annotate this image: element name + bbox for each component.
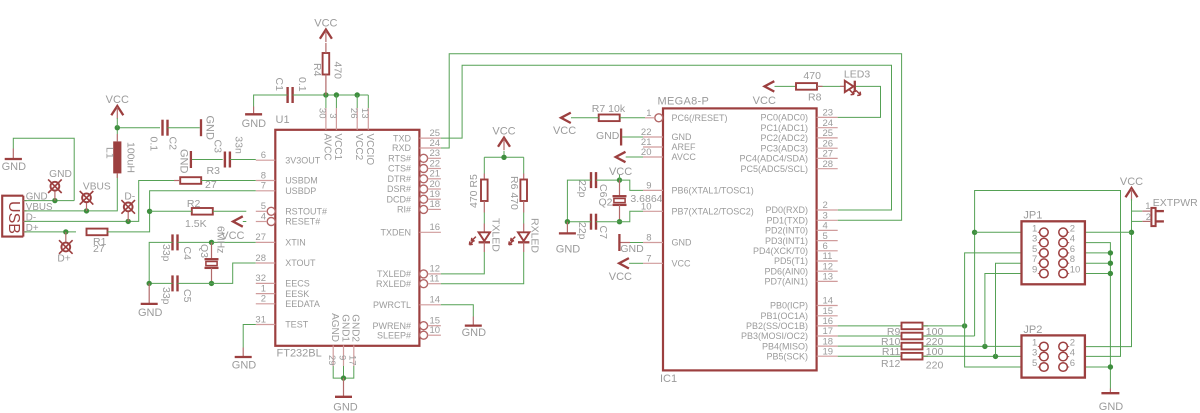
pin IC1 PC4(ADC4/SDA) (27) <box>739 149 837 164</box>
pin U1 TXDEN (16) <box>380 222 440 237</box>
pin IC1 PC3(ADC3) (26) <box>760 138 837 153</box>
svg-text:TXDEN: TXDEN <box>380 228 411 238</box>
pin USB D+ stub <box>23 231 26 233</box>
wire MOSI net JP2 pin 4 <box>975 191 1121 357</box>
pin IC1 PD1(TXD) (3) <box>766 211 837 226</box>
wire R12 to JP2 pin 3 <box>923 355 1038 357</box>
net arrow RESET <box>233 216 243 226</box>
wire R6 top lead <box>523 174 525 180</box>
ground bottom right <box>1099 389 1124 413</box>
pin IC1 PD5(T1) (11) <box>774 251 838 266</box>
pin IC1 VCC (7) <box>643 253 691 268</box>
pin U1 DTR# (21) <box>387 169 440 184</box>
svg-text:11: 11 <box>430 274 440 285</box>
svg-text:27: 27 <box>93 243 105 255</box>
pin JP1 5 <box>1032 244 1048 257</box>
pin JP1 4 <box>1059 234 1075 247</box>
wire VCC to JP1 pin 2 <box>1069 231 1131 233</box>
svg-text:EXTPWR: EXTPWR <box>1153 197 1198 209</box>
svg-text:EEDATA: EEDATA <box>285 299 320 309</box>
test point D+ <box>59 240 73 254</box>
svg-text:DCD#: DCD# <box>386 194 411 204</box>
wire XTAL2 to pin 10 <box>620 211 644 221</box>
svg-text:6: 6 <box>1070 358 1075 369</box>
svg-text:D-: D- <box>124 192 135 203</box>
wire U1 ground pins <box>333 366 354 378</box>
svg-text:28: 28 <box>823 159 834 170</box>
pin U1 VCC1 (3) <box>327 108 343 161</box>
svg-text:GND: GND <box>596 130 620 142</box>
wire LED3 left lead <box>840 85 845 87</box>
svg-text:PC5(ADC5/SCL): PC5(ADC5/SCL) <box>740 164 808 174</box>
wire TXD to PD0 <box>441 65 892 210</box>
wire to pin 13 <box>367 95 369 108</box>
svg-text:2: 2 <box>261 294 266 305</box>
svg-text:GND: GND <box>672 132 693 142</box>
svg-text:PB0(ICP): PB0(ICP) <box>770 301 808 311</box>
wire RXD to PD1 <box>441 54 902 221</box>
pin IC1 PB6(XTAL1/TOSC1) (9) <box>643 180 754 195</box>
net arrow VCC R7 <box>561 113 571 123</box>
wire GND net from USB GND pin <box>13 138 74 200</box>
wire C6 to XTAL1 node <box>596 179 620 181</box>
ground below C6 C7 <box>556 222 581 256</box>
test point GND <box>48 179 62 193</box>
svg-text:GND: GND <box>462 327 487 339</box>
svg-text:7: 7 <box>261 181 266 192</box>
pin IC1 PC1(ADC1) (24) <box>760 118 837 133</box>
LED LED3 <box>845 81 861 96</box>
op-amp IC1 MEGA8-P box <box>663 108 817 370</box>
svg-text:C3: C3 <box>212 140 224 154</box>
svg-text:16: 16 <box>430 222 441 233</box>
junction C5 GND <box>147 281 152 286</box>
svg-text:470: 470 <box>332 62 344 80</box>
pin JP1 7 <box>1032 254 1048 267</box>
LED TXLED <box>469 232 490 245</box>
svg-text:AVCC: AVCC <box>672 152 697 162</box>
wire VBUS to L1 <box>24 174 117 211</box>
wire R3 to pin 8 <box>201 180 256 182</box>
wire to R6 <box>523 157 525 173</box>
junction VCC <box>115 125 120 130</box>
pin IC1 PB2(SS/OC1B) (16) <box>746 316 838 331</box>
ground left of C3 <box>177 149 191 174</box>
junction D- testpoint <box>126 219 131 224</box>
pin IC1 PD0(RXD) (2) <box>765 200 837 215</box>
svg-text:TXLED: TXLED <box>490 218 502 252</box>
pin JP1 1 <box>1032 223 1048 236</box>
wire VCC arrow to R7 <box>571 117 599 119</box>
svg-text:22p: 22p <box>576 222 588 240</box>
svg-text:3V3OUT: 3V3OUT <box>285 155 321 165</box>
ground below TEST <box>232 348 257 372</box>
wire to R5 <box>483 157 485 173</box>
junction GND JP2 <box>1108 364 1113 369</box>
svg-text:JP2: JP2 <box>1023 324 1042 336</box>
capacitor C4 <box>173 234 178 250</box>
wire C4 C5 left to GND <box>149 242 172 283</box>
wire R6 lead <box>523 201 525 213</box>
svg-text:PD5(T1): PD5(T1) <box>774 256 808 266</box>
net arrow VCC R8 <box>765 81 775 91</box>
svg-text:SLEEP#: SLEEP# <box>377 330 411 340</box>
wire TXLED top lead <box>483 224 485 233</box>
svg-text:1: 1 <box>646 108 651 119</box>
wire GND to C3 <box>192 159 223 161</box>
junction MOSI JP1 <box>972 230 977 235</box>
wire to pin 30 <box>325 95 327 108</box>
svg-text:VCC: VCC <box>753 95 776 107</box>
svg-text:PWRCTL: PWRCTL <box>373 300 411 310</box>
svg-text:TEST: TEST <box>285 320 309 330</box>
wire C5 to XTOUT node <box>178 282 212 284</box>
crystal Q3 <box>205 259 219 268</box>
capacitor C2 <box>163 120 168 136</box>
svg-text:PC1(ADC1): PC1(ADC1) <box>760 123 808 133</box>
pin IC1 PB3(MOSI/OC2) (17) <box>741 326 838 341</box>
wire LED3 to PC0 <box>838 86 881 117</box>
junction VCC VCC2 <box>355 92 360 97</box>
pin JP1 9 <box>1032 265 1048 278</box>
pin U1 AVCC (30) <box>317 108 333 161</box>
wire pin to R10 <box>838 335 902 337</box>
wire EXTPWR pin 2 <box>1132 220 1143 222</box>
wire TEST to ground <box>243 325 256 348</box>
svg-text:VCCIO: VCCIO <box>364 134 375 166</box>
svg-text:R3: R3 <box>207 165 221 177</box>
svg-text:PC0(ADC0): PC0(ADC0) <box>760 113 808 123</box>
junction VBUS testpoint <box>84 208 89 213</box>
pin IC1 PC6(/RESET) (1) <box>645 108 728 123</box>
svg-text:5: 5 <box>1032 358 1037 369</box>
pin U1 3V3OUT (6) <box>256 150 321 165</box>
wire C4 to XTIN node <box>178 241 212 243</box>
svg-text:AGND: AGND <box>329 313 340 342</box>
svg-text:PC3(ADC3): PC3(ADC3) <box>760 143 808 153</box>
svg-text:GND: GND <box>672 238 693 248</box>
svg-text:9: 9 <box>646 180 651 191</box>
pin JP2 6 <box>1059 358 1075 371</box>
wire D+ to R1 <box>24 231 76 233</box>
ground at IC1 pin 8 <box>619 234 644 255</box>
svg-text:Q3: Q3 <box>198 244 210 258</box>
wire arrow to pin 7 <box>629 262 643 264</box>
wire RXLED lead down <box>523 242 525 252</box>
pin IC1 PB0(ICP) (14) <box>770 296 838 311</box>
svg-text:6MHz: 6MHz <box>215 226 227 253</box>
svg-text:AREF: AREF <box>672 142 697 152</box>
svg-text:27: 27 <box>255 232 266 243</box>
svg-text:PD0(RXD): PD0(RXD) <box>765 205 808 215</box>
wire pin to R12 <box>838 355 902 357</box>
pin USB D- stub <box>23 220 26 222</box>
capacitor C5 <box>173 275 178 291</box>
wire VCC rail to U1 top pins <box>293 94 369 96</box>
wire JP2 pin 6 to GND <box>1069 366 1110 368</box>
wire R9 right <box>923 325 965 327</box>
svg-text:LED3: LED3 <box>844 69 870 81</box>
wire R4 top lead <box>325 43 327 53</box>
connector USB <box>2 196 23 237</box>
junction U1 ground <box>341 375 346 380</box>
pin IC1 PC0(ADC0) (23) <box>760 108 837 123</box>
wire VCC stem <box>503 151 505 157</box>
pin JP2 4 <box>1059 348 1075 361</box>
svg-text:R4: R4 <box>311 63 323 77</box>
wire to pin 26 <box>356 95 358 108</box>
svg-text:31: 31 <box>255 314 266 325</box>
svg-text:8: 8 <box>646 233 651 244</box>
ground below C4 C5 <box>138 283 163 319</box>
wire R5 top lead <box>483 174 485 180</box>
svg-text:GND: GND <box>204 116 216 141</box>
resistor R4 <box>323 53 330 75</box>
ground below U1 <box>333 378 358 413</box>
svg-text:R8: R8 <box>808 92 822 104</box>
pin U1 AGND (29) <box>326 313 340 366</box>
pin U1 RSTOUT# (5) <box>256 201 327 216</box>
svg-text:GND: GND <box>232 359 257 371</box>
svg-text:7: 7 <box>646 253 651 264</box>
pin U1 VCCIO (13) <box>359 108 375 165</box>
pin U1 XTOUT (28) <box>255 253 316 268</box>
svg-text:R12: R12 <box>881 358 900 370</box>
net arrow VCC AVCC <box>616 152 626 162</box>
wire C7 to XTAL2 node <box>596 221 620 223</box>
svg-text:IC1: IC1 <box>660 373 677 385</box>
VCC symbol above LEDs <box>492 125 515 150</box>
wire JP1 even pin to GND <box>1069 252 1110 254</box>
pin U1 DSR# (20) <box>387 179 441 194</box>
pin U1 CTS# (22) <box>388 158 441 173</box>
svg-text:GND: GND <box>556 243 581 255</box>
junction GND JP1 <box>1108 271 1113 276</box>
VCC symbol left <box>106 94 129 119</box>
wire R8 to LED3 <box>817 85 845 87</box>
svg-text:13: 13 <box>823 272 834 283</box>
pin U1 XTIN (27) <box>255 232 305 247</box>
resistor R12 <box>902 353 923 360</box>
resistor R8 <box>796 83 817 90</box>
pin USB VBUS stub <box>23 210 26 212</box>
wire VCC label stub <box>619 175 621 180</box>
connector EXTPWR <box>1142 208 1164 226</box>
pin IC1 PB7(XTAL2/TOSC2) (10) <box>641 201 754 216</box>
wire USB GND pin <box>24 200 74 202</box>
pin IC1 PB1(OC1A) (15) <box>760 306 837 321</box>
svg-text:GND1: GND1 <box>339 314 350 342</box>
wire VBUS testpoint stem <box>86 203 88 211</box>
pin U1 SLEEP# (10) <box>377 325 441 340</box>
wire Q2 top lead <box>619 180 621 196</box>
capacitor C6 <box>591 172 596 188</box>
pin IC1 PD7(AIN1) (13) <box>764 272 837 287</box>
svg-text:1: 1 <box>1145 201 1150 212</box>
junction XTIN <box>209 240 214 245</box>
junction R9 net <box>962 323 967 328</box>
svg-text:18: 18 <box>430 199 441 210</box>
svg-text:RESET#: RESET# <box>285 217 320 227</box>
pin IC1 GND (8) <box>643 233 692 248</box>
svg-text:XTOUT: XTOUT <box>285 258 316 268</box>
pin U1 EESK (1) <box>256 283 309 298</box>
junction LED VCC <box>501 155 506 160</box>
svg-text:VCC2: VCC2 <box>353 134 364 161</box>
svg-text:GND: GND <box>242 118 267 130</box>
junction USBDP R2 <box>147 209 152 214</box>
pin JP1 6 <box>1059 244 1075 257</box>
pin U1 RXLED# (11) <box>376 274 441 289</box>
pin IC1 PD6(AIN0) (12) <box>764 261 837 276</box>
pin JP2 1 <box>1032 338 1048 351</box>
svg-text:GND: GND <box>620 243 644 255</box>
svg-text:33p: 33p <box>160 244 172 262</box>
pin JP1 2 <box>1059 223 1075 236</box>
svg-text:20: 20 <box>641 147 652 158</box>
svg-text:3.6864: 3.6864 <box>630 193 662 205</box>
capacitor C3 <box>225 152 230 168</box>
svg-text:TXD: TXD <box>393 133 412 143</box>
pin JP2 3 <box>1032 348 1048 361</box>
wire VCC net vertical to JP2 pin 2 <box>1069 199 1131 347</box>
wire R1 to USBDP pin 7 <box>108 191 256 232</box>
pin IC1 PD2(INT0) (4) <box>765 221 838 236</box>
junction XTAL2 <box>617 219 622 224</box>
wire R9 right lead <box>923 325 929 327</box>
svg-text:VCC: VCC <box>553 125 576 137</box>
pin U1 TXD (25) <box>393 128 441 143</box>
resistor R5 <box>481 180 488 202</box>
pin USB GND stub <box>23 200 26 202</box>
svg-text:28: 28 <box>255 253 266 264</box>
wire R2 to RSTOUT pin 5 <box>213 210 247 212</box>
wire TXLED to pin 12 <box>441 252 484 274</box>
wire PWRCTL to ground <box>441 305 473 317</box>
wire net to JP2 pin 5 <box>965 326 1038 367</box>
wire net to JP1 pin 5 <box>965 253 1038 326</box>
wire GND1 down <box>343 366 345 378</box>
pin IC1 PC5(ADC5/SCL) (28) <box>740 159 837 174</box>
svg-text:3: 3 <box>1032 348 1037 359</box>
wire Q3 top lead <box>211 242 213 259</box>
svg-text:6: 6 <box>261 150 266 161</box>
svg-text:RXLED#: RXLED# <box>376 279 411 289</box>
svg-text:PD6(AIN0): PD6(AIN0) <box>764 266 808 276</box>
wire R7 to pin 1 <box>620 117 645 119</box>
resistor R1 <box>87 229 108 236</box>
svg-text:4: 4 <box>1070 348 1075 359</box>
pin U1 DCD# (19) <box>386 189 440 204</box>
svg-text:RTS#: RTS# <box>388 154 411 164</box>
svg-text:470: 470 <box>803 70 821 82</box>
svg-text:GND: GND <box>1099 401 1124 413</box>
junction VCC JP1 <box>1129 230 1134 235</box>
wire SCK to JP1 pin 7 <box>996 263 1038 356</box>
junction GND JP1 <box>1108 261 1113 266</box>
svg-text:VCC: VCC <box>1120 176 1143 188</box>
svg-text:PB6(XTAL1/TOSC1): PB6(XTAL1/TOSC1) <box>672 186 754 196</box>
svg-text:RI#: RI# <box>397 205 411 215</box>
wire RXLED top lead <box>523 224 525 233</box>
svg-text:USBDP: USBDP <box>285 186 316 196</box>
svg-text:D+: D+ <box>57 253 70 264</box>
resistor R10 <box>902 333 923 340</box>
pin JP1 10 <box>1059 265 1080 278</box>
wire VCC L1 to C2 <box>117 128 160 134</box>
svg-text:PD4(XCK/T0): PD4(XCK/T0) <box>753 246 808 256</box>
pin U1 GND2 (17) <box>347 314 361 366</box>
pin IC1 PB4(MISO) (18) <box>762 336 838 351</box>
svg-text:PC2(ADC2): PC2(ADC2) <box>760 133 808 143</box>
wire to pin 3 <box>335 95 337 108</box>
svg-text:CTS#: CTS# <box>388 164 411 174</box>
wire D- to R3 <box>24 181 174 222</box>
ground below C1 <box>242 107 267 130</box>
pin IC1 GND (22) <box>641 127 692 142</box>
svg-text:PD1(TXD): PD1(TXD) <box>766 216 808 226</box>
wire MOSI to JP1 pin 1 <box>975 231 1038 233</box>
svg-text:GND: GND <box>49 169 72 180</box>
pin JP1 3 <box>1032 234 1048 247</box>
wire R3 left lead <box>174 180 180 182</box>
connector JP2 <box>1022 335 1085 377</box>
svg-text:RXLED: RXLED <box>528 218 540 253</box>
svg-text:PC6(/RESET): PC6(/RESET) <box>672 113 728 123</box>
svg-text:470 R5: 470 R5 <box>468 174 480 208</box>
svg-text:EESK: EESK <box>285 289 309 299</box>
resistor R6 <box>520 180 527 202</box>
svg-text:220: 220 <box>926 360 944 372</box>
svg-text:PB2(SS/OC1B): PB2(SS/OC1B) <box>746 321 808 331</box>
wire JP1 even pin to GND <box>1069 273 1110 275</box>
resistor R9 <box>902 323 923 330</box>
LED RXLED <box>509 232 530 245</box>
junction D+ testpoint <box>63 229 68 234</box>
svg-text:100uH: 100uH <box>125 142 137 173</box>
resistor R3 <box>180 177 201 184</box>
svg-text:VCC: VCC <box>609 271 632 283</box>
svg-text:PD3(INT1): PD3(INT1) <box>765 236 808 246</box>
svg-text:9: 9 <box>1032 265 1037 276</box>
wire R5 lead <box>483 201 485 213</box>
wire C2 to GND <box>168 127 200 129</box>
svg-text:RXD: RXD <box>392 143 412 153</box>
wire C3 to pin 6 <box>230 159 256 161</box>
svg-text:2: 2 <box>1146 212 1151 223</box>
wire GND net vertical <box>1069 243 1110 389</box>
svg-text:Q2: Q2 <box>598 197 612 209</box>
wire R4 bottom lead <box>325 74 327 95</box>
wire R12 right lead <box>923 355 929 357</box>
pin U1 USBDP (7) <box>256 181 316 196</box>
wire C1 to GND <box>254 95 288 107</box>
svg-text:R2: R2 <box>187 198 201 210</box>
wire Q3 bottom lead <box>211 268 213 284</box>
wire D- testpoint stem <box>127 212 129 222</box>
resistor R7 <box>599 115 620 122</box>
junction VCC AVCC <box>323 92 328 97</box>
svg-text:VCC: VCC <box>609 166 632 178</box>
op-amp U1 FT232BL box <box>275 130 419 346</box>
wire R8 right lead <box>817 85 822 87</box>
wire GND to pin 8 <box>630 242 643 244</box>
wire D+ testpoint stem <box>65 232 67 242</box>
VCC symbol above R4 <box>314 17 337 42</box>
wire R10 right <box>923 335 975 337</box>
wire Q2 bottom lead <box>619 205 621 222</box>
wire GND testpoint stem <box>54 191 56 201</box>
